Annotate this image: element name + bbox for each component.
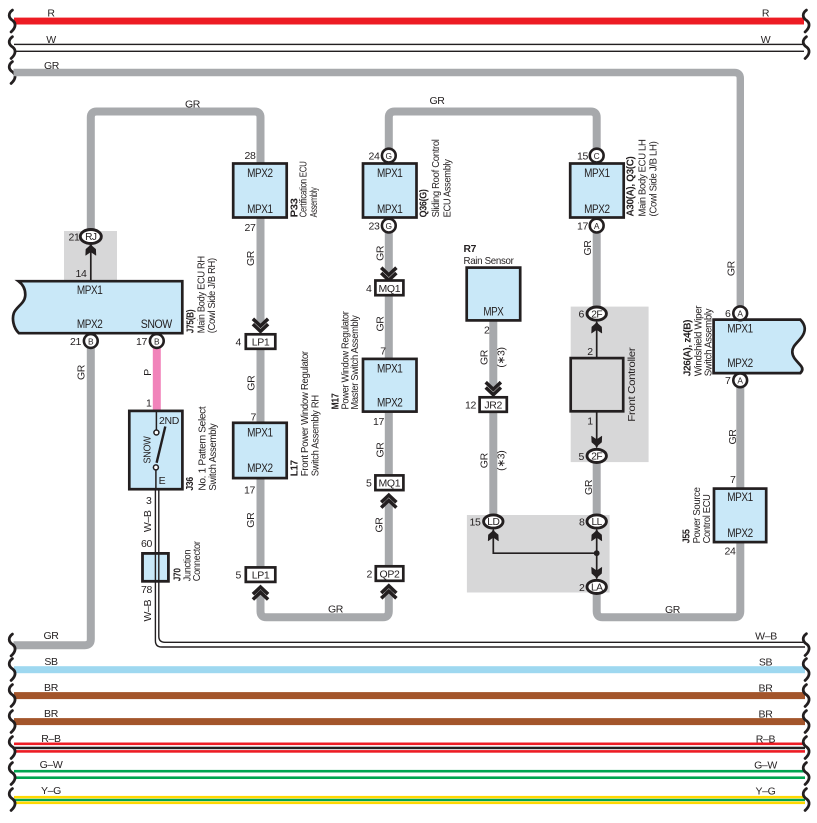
svg-text:GR: GR — [245, 512, 257, 528]
arrow down into LA — [592, 567, 602, 579]
pin circle G 23 (Q36) — [382, 219, 396, 233]
wire GR 2F to connector LL — [593, 461, 601, 517]
junction connector JR2 pin 12 — [480, 397, 507, 412]
svg-text:GR: GR — [665, 604, 681, 616]
svg-text:MPX1: MPX1 — [377, 166, 403, 180]
svg-text:Master Switch Assembly: Master Switch Assembly — [349, 315, 361, 410]
chevrons into JR2 (down) — [486, 382, 501, 395]
svg-text:GR: GR — [726, 260, 738, 276]
squiggle right R-B — [803, 737, 809, 759]
svg-text:Assembly: Assembly — [308, 187, 320, 218]
svg-text:2F: 2F — [591, 452, 602, 463]
svg-text:15: 15 — [577, 150, 588, 162]
svg-text:JR2: JR2 — [484, 400, 502, 412]
svg-text:A: A — [737, 376, 743, 386]
svg-text:17: 17 — [136, 336, 147, 348]
squiggle left R-B — [9, 737, 15, 759]
svg-text:Y–G: Y–G — [756, 785, 776, 797]
junction connector LP1 pin 4 — [246, 334, 275, 349]
svg-text:Y–G: Y–G — [41, 785, 61, 797]
wire GR P33 pin 27 to connector LP1 — [257, 218, 265, 325]
svg-text:SB: SB — [759, 656, 773, 668]
svg-text:MPX1: MPX1 — [727, 322, 753, 336]
bus SB — [14, 666, 805, 673]
svg-text:LD: LD — [487, 517, 499, 528]
wire GR JR2 to connector LD — [489, 412, 497, 517]
shade behind Front Controller — [571, 307, 649, 463]
wire GR J26 pin 7 to J55 pin 7 — [736, 386, 744, 490]
svg-text:12: 12 — [465, 400, 476, 412]
switch contact circle (2ND) — [154, 430, 159, 435]
svg-text:GR: GR — [374, 316, 386, 332]
svg-text:MPX1: MPX1 — [584, 166, 610, 180]
svg-text:LP1: LP1 — [252, 570, 270, 582]
shade behind connector RJ — [64, 231, 117, 281]
svg-text:GR: GR — [246, 375, 258, 391]
break squiggle left of bus GR — [9, 62, 15, 84]
svg-text:8: 8 — [579, 516, 585, 528]
arrow up into LL — [592, 529, 602, 541]
svg-text:SNOW: SNOW — [141, 436, 153, 463]
svg-text:GR: GR — [43, 630, 59, 642]
svg-text:BR: BR — [759, 683, 774, 695]
svg-text:R: R — [762, 8, 770, 20]
svg-text:Switch Assembly RH: Switch Assembly RH — [310, 395, 322, 476]
chevrons below LP1 (up) — [253, 587, 268, 600]
shade behind connectors LD LL LA — [467, 515, 610, 593]
svg-text:GR: GR — [185, 98, 201, 110]
wire GR LP1 to QP2 link (bottom) — [261, 590, 389, 617]
svg-text:17: 17 — [244, 485, 255, 497]
svg-text:A30(A), Q3(C): A30(A), Q3(C) — [625, 157, 637, 217]
svg-text:MPX: MPX — [483, 305, 503, 319]
svg-text:GR: GR — [374, 442, 386, 458]
squiggle right BR2 — [803, 711, 809, 733]
break squiggle right of bus R — [803, 10, 809, 32]
bus W (top, double thin line) — [14, 44, 804, 45]
svg-text:R: R — [47, 8, 55, 20]
switch lever — [157, 427, 166, 463]
svg-text:BR: BR — [44, 708, 59, 720]
wire P (pink) J75 pin 17 to J36 pin 1 — [153, 347, 161, 412]
svg-text:3: 3 — [146, 495, 152, 507]
svg-text:GR: GR — [245, 250, 257, 266]
bus BR (first) — [14, 692, 805, 699]
arrow up into LD — [488, 529, 498, 541]
svg-text:17: 17 — [373, 416, 384, 428]
pin circle B 17 (J75) — [150, 334, 164, 348]
svg-text:2: 2 — [587, 346, 593, 358]
svg-text:W–B: W–B — [142, 600, 154, 622]
svg-text:C: C — [594, 151, 600, 161]
svg-text:GR: GR — [374, 245, 386, 261]
junction connector QP2 pin 2 — [376, 566, 404, 581]
svg-text:MQ1: MQ1 — [379, 283, 401, 295]
svg-text:MPX1: MPX1 — [247, 425, 273, 439]
svg-text:MPX2: MPX2 — [727, 356, 753, 370]
svg-text:A: A — [594, 221, 600, 231]
svg-text:GR: GR — [328, 603, 344, 615]
svg-text:LP1: LP1 — [252, 337, 270, 349]
junction connector MQ1 pin 4 — [375, 281, 403, 296]
thin line 2F into Front Controller pin 2 — [596, 325, 598, 359]
chevrons below MQ1 (up) — [381, 495, 396, 508]
junction dot — [594, 550, 600, 556]
svg-text:2: 2 — [579, 582, 585, 594]
wire GR LP1 to L17 pin 7 — [257, 349, 265, 423]
svg-text:W: W — [46, 34, 56, 46]
wire GR MQ1 to QP2 — [385, 500, 393, 567]
wire GR J75 pin 21 to bottom-left GR bus — [14, 347, 91, 645]
svg-text:4: 4 — [366, 283, 372, 295]
Front Controller box — [571, 358, 624, 411]
wire W-B over J70 (inner) — [159, 489, 805, 642]
svg-text:RJ: RJ — [85, 232, 97, 243]
ECU P33 Certification ECU Assembly — [233, 164, 287, 218]
wire GR MQ1 to M17 pin 7 — [385, 295, 393, 359]
svg-text:2F: 2F — [591, 309, 602, 320]
svg-text:GR: GR — [429, 95, 445, 107]
svg-text:4: 4 — [236, 337, 242, 349]
svg-text:17: 17 — [577, 220, 588, 232]
svg-text:P: P — [142, 369, 154, 376]
svg-text:(∗3): (∗3) — [495, 451, 507, 471]
svg-text:28: 28 — [245, 150, 256, 162]
svg-text:Rain Sensor: Rain Sensor — [464, 255, 515, 267]
connector oval LL pin 8 — [587, 515, 606, 528]
svg-text:(Cowl Side J/B RH): (Cowl Side J/B RH) — [206, 258, 218, 333]
svg-text:5: 5 — [366, 478, 372, 490]
squiggle right Y-G — [803, 789, 809, 811]
ECU J55 Power Source Control — [714, 489, 766, 542]
arrow down into 2F — [592, 436, 602, 448]
svg-text:Connector: Connector — [191, 541, 203, 582]
svg-text:LA: LA — [591, 583, 603, 594]
switch L17 Front Power Window Regulator RH — [233, 423, 287, 478]
svg-text:23: 23 — [369, 220, 380, 232]
bus Y-G (yellow/green/yellow) — [14, 796, 805, 799]
svg-text:24: 24 — [369, 150, 380, 162]
pin circle A 7 (J26) — [733, 373, 747, 387]
wire GR top bus to J26 pin 6 — [14, 73, 741, 309]
bus R-B (red/black/red) — [14, 743, 805, 746]
thin line LD junction to LL/LA branch — [493, 535, 596, 553]
connector oval LD pin 15 — [484, 515, 503, 528]
svg-text:GR: GR — [582, 240, 594, 256]
svg-text:MPX2: MPX2 — [727, 526, 753, 540]
svg-text:24: 24 — [725, 546, 736, 558]
svg-text:(∗3): (∗3) — [495, 347, 507, 367]
svg-text:Q36(G): Q36(G) — [417, 189, 429, 217]
svg-text:21: 21 — [70, 336, 81, 348]
pin circle C 15 (A30) — [590, 149, 604, 163]
svg-text:7: 7 — [251, 411, 257, 423]
svg-text:GR: GR — [479, 452, 491, 468]
junction connector LP1 pin 5 — [246, 567, 275, 582]
connector oval LA pin 2 — [587, 580, 606, 593]
svg-text:MPX2: MPX2 — [584, 202, 610, 216]
pin circle A 6 (J26) — [733, 306, 747, 320]
svg-text:(Cowl Side J/B LH): (Cowl Side J/B LH) — [647, 142, 659, 217]
svg-text:15: 15 — [470, 516, 481, 528]
bus R (top) — [14, 18, 804, 25]
svg-text:MPX1: MPX1 — [247, 202, 273, 216]
svg-text:E: E — [159, 475, 166, 487]
thin line Front Controller pin 1 to 2F — [596, 411, 598, 444]
svg-text:R7: R7 — [464, 243, 477, 255]
svg-text:ECU Assembly: ECU Assembly — [441, 158, 453, 217]
svg-text:7: 7 — [730, 474, 736, 486]
squiggle left G-W — [9, 763, 15, 785]
svg-text:W–B: W–B — [755, 630, 777, 642]
wire GR link RJ to P33 pin 28 — [91, 112, 261, 233]
wire GR Q36 pin 23 to connector MQ1 — [385, 232, 393, 274]
svg-text:2: 2 — [484, 325, 490, 337]
sensor R7 Rain Sensor — [467, 268, 521, 321]
svg-text:5: 5 — [236, 570, 242, 582]
svg-text:W: W — [761, 34, 771, 46]
connector oval 2F pin 6 — [587, 307, 606, 320]
svg-text:BR: BR — [759, 709, 774, 721]
pin circle B 21 (J75) — [84, 334, 98, 348]
svg-text:B: B — [88, 336, 94, 346]
svg-text:6: 6 — [579, 309, 585, 321]
svg-text:14: 14 — [76, 268, 87, 280]
svg-text:Switch Assembly: Switch Assembly — [207, 423, 219, 491]
svg-text:5: 5 — [579, 451, 585, 463]
svg-text:GR: GR — [76, 364, 88, 380]
bus G-W (double green) — [14, 770, 805, 773]
svg-text:27: 27 — [245, 222, 256, 234]
svg-text:MPX1: MPX1 — [377, 362, 403, 376]
svg-text:60: 60 — [141, 538, 152, 550]
svg-text:7: 7 — [380, 345, 386, 357]
squiggle right BR1 — [803, 685, 809, 707]
svg-text:SNOW: SNOW — [141, 317, 173, 331]
svg-text:1: 1 — [146, 398, 152, 410]
svg-text:QP2: QP2 — [380, 569, 400, 581]
wire GR A30 pin 17 to connector 2F — [593, 232, 601, 310]
junction connector MQ1 pin 5 — [375, 475, 403, 490]
svg-text:2: 2 — [367, 569, 373, 581]
chevrons below QP2 (up) — [381, 586, 396, 599]
svg-text:2ND: 2ND — [159, 415, 180, 427]
break squiggle right of bus W — [803, 37, 809, 59]
switch J36 No.1 Pattern Select — [129, 411, 182, 489]
wire GR link Q36 pin 24 to A30 pin 15 — [389, 112, 597, 151]
squiggle right G-W — [803, 763, 809, 785]
svg-text:A: A — [737, 309, 743, 319]
svg-text:GR: GR — [479, 349, 491, 365]
squiggle right W-B — [803, 634, 809, 656]
svg-text:G–W: G–W — [40, 759, 63, 771]
svg-text:78: 78 — [141, 584, 152, 596]
svg-text:B: B — [154, 336, 160, 346]
ECU J75(B) Main Body ECU RH (torn left edge) — [13, 281, 182, 333]
connector oval RJ pin 21 — [80, 230, 101, 244]
thin line RJ arrow into J75 pin 14 — [90, 247, 92, 282]
switch internal lead top — [155, 412, 157, 430]
ECU Q36(G) Sliding Roof Control — [363, 164, 417, 218]
switch J26(A) z4(B) Windshield Wiper (torn right edge) — [714, 320, 805, 374]
svg-text:MQ1: MQ1 — [379, 478, 401, 490]
bus BR (second) — [14, 718, 805, 725]
svg-text:6: 6 — [725, 308, 731, 320]
svg-text:Front Controller: Front Controller — [626, 347, 638, 422]
svg-text:GR: GR — [583, 479, 595, 495]
svg-text:J36: J36 — [184, 477, 196, 491]
svg-text:MPX2: MPX2 — [77, 317, 103, 331]
svg-text:SB: SB — [44, 656, 58, 668]
svg-text:1: 1 — [587, 415, 593, 427]
svg-text:G: G — [386, 221, 393, 231]
squiggle left SB — [9, 659, 15, 681]
svg-text:7: 7 — [725, 375, 731, 387]
switch contact circle (E) — [153, 465, 158, 470]
svg-text:MPX2: MPX2 — [247, 461, 273, 475]
svg-text:MPX1: MPX1 — [727, 490, 753, 504]
wire GR M17 pin 17 to MQ1 — [385, 412, 393, 476]
pin circle G 24 (Q36) — [382, 149, 396, 163]
switch M17 Power Window Regulator Master — [363, 359, 417, 412]
squiggle left GR bottom — [9, 634, 15, 656]
svg-text:21: 21 — [69, 231, 80, 243]
connector oval 2F pin 5 — [587, 449, 606, 462]
thin line LL to LA — [596, 535, 598, 575]
svg-text:MPX1: MPX1 — [377, 202, 403, 216]
svg-text:MPX2: MPX2 — [377, 396, 403, 410]
svg-text:Control ECU: Control ECU — [701, 494, 713, 543]
wire GR LA to J55 pin 24 — [597, 542, 741, 617]
squiggle left BR1 — [9, 685, 15, 707]
svg-text:G: G — [386, 151, 393, 161]
squiggle left Y-G — [9, 789, 15, 811]
squiggle right SB — [803, 659, 809, 681]
wire GR L17 pin 17 to LP1 — [257, 478, 265, 568]
wire W-B over J70 (outer) — [155, 489, 805, 647]
chevrons into MQ1 (down) — [381, 268, 396, 281]
svg-text:MPX1: MPX1 — [77, 283, 103, 297]
arrow up into RJ — [86, 244, 96, 256]
switch internal lead bottom — [155, 470, 157, 490]
svg-text:GR: GR — [727, 429, 739, 445]
svg-text:G–W: G–W — [754, 759, 777, 771]
svg-text:W–B: W–B — [142, 510, 154, 532]
squiggle left BR2 — [9, 711, 15, 733]
break squiggle left of bus W — [9, 37, 15, 59]
svg-text:R–B: R–B — [756, 733, 776, 745]
junction connector J70 — [143, 553, 169, 581]
chevrons into LP1 (down) — [253, 319, 268, 332]
svg-text:GR: GR — [44, 60, 60, 72]
svg-text:Switch Assembly: Switch Assembly — [703, 308, 715, 377]
svg-text:GR: GR — [374, 517, 386, 533]
svg-text:MPX2: MPX2 — [247, 166, 273, 180]
break squiggle left of bus R — [9, 10, 15, 32]
pin circle A 17 (A30) — [590, 219, 604, 233]
wire GR R7 pin 2 to connector JR2 — [489, 320, 497, 387]
ECU A30(A) Q3(C) Main Body ECU LH — [570, 164, 624, 218]
svg-text:R–B: R–B — [41, 733, 61, 745]
arrow up into 2F — [592, 321, 602, 333]
svg-text:LL: LL — [592, 517, 603, 528]
svg-text:BR: BR — [44, 682, 59, 694]
